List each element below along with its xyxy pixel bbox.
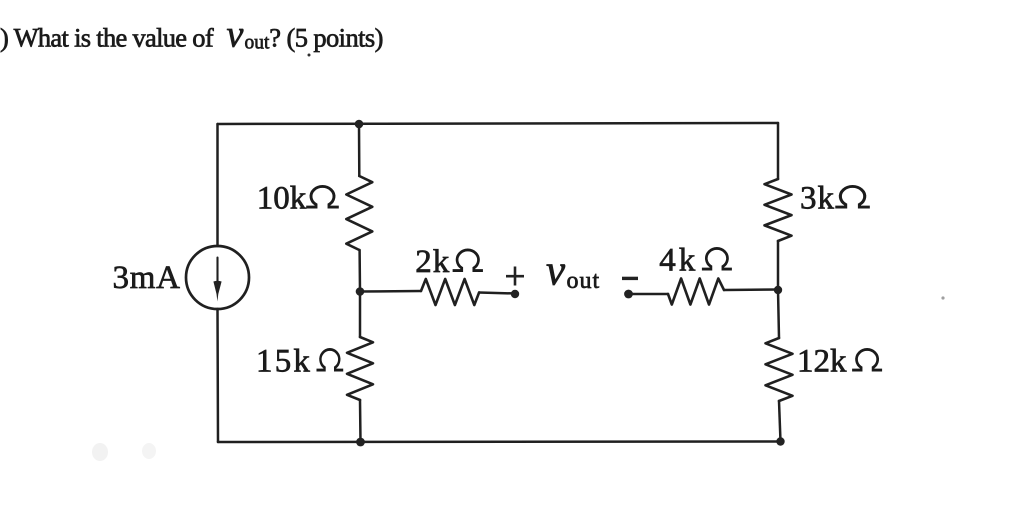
- wire right bottom: [779, 401, 781, 442]
- resistor R 15k zigzag: [347, 337, 373, 400]
- wire right upper: [777, 123, 780, 179]
- node dot right junction: [774, 286, 782, 294]
- node dot middle-left junction: [356, 287, 365, 296]
- wire to plus node: [479, 293, 515, 294]
- resistor R 2k zigzag: [421, 279, 479, 305]
- svg-text:15k: 15k: [256, 344, 312, 380]
- node dot bottom right: [776, 437, 784, 445]
- svg-text:3mA: 3mA: [113, 260, 181, 296]
- current source arrow: [216, 258, 218, 284]
- faint smudge bottom left 1: [92, 443, 108, 461]
- minus sign: [622, 277, 638, 280]
- wire middle branch bottom: [359, 400, 362, 442]
- svg-text:out: out: [567, 268, 601, 294]
- wire left lower: [216, 309, 219, 442]
- wire right lower: [778, 290, 779, 338]
- label 15k ohm: [256, 344, 343, 380]
- node dot top junction: [355, 120, 364, 129]
- svg-text:) What is the value of: ) What is the value of: [0, 23, 214, 53]
- wire center left segment: [360, 290, 421, 293]
- svg-text:v: v: [546, 247, 566, 294]
- label 2k ohm: [415, 244, 483, 280]
- resistor R 10k zigzag: [346, 176, 372, 250]
- label 12k ohm: [797, 344, 882, 380]
- svg-text:2k: 2k: [415, 244, 450, 280]
- resistor R 3k zigzag: [765, 179, 792, 241]
- wire left upper: [216, 124, 219, 246]
- svg-text:? (5 points): ? (5 points): [269, 23, 383, 53]
- svg-text:out: out: [245, 33, 271, 54]
- wire right mid: [777, 241, 780, 290]
- faint speck right of circuit: [941, 296, 944, 299]
- wire from 4k to right branch: [724, 288, 778, 291]
- resistor R 12k zigzag: [766, 338, 793, 401]
- svg-text:10k: 10k: [257, 181, 307, 217]
- wire middle branch mid: [358, 250, 361, 292]
- faint smudge bottom left 2: [142, 443, 156, 459]
- node dot bottom junction: [356, 438, 365, 447]
- wire top: [218, 123, 779, 124]
- node dot plus terminal: [511, 290, 519, 298]
- label vout: [546, 247, 600, 294]
- current source arrowhead: [213, 281, 221, 302]
- svg-text:12k: 12k: [797, 344, 847, 380]
- svg-text:v: v: [227, 14, 244, 56]
- wire from minus node: [629, 293, 669, 296]
- label 4k ohm: [659, 243, 732, 279]
- wire middle branch upper: [358, 124, 361, 176]
- node dot minus terminal: [624, 290, 633, 299]
- label 10k ohm: [257, 181, 339, 217]
- plus sign: [506, 267, 524, 286]
- stray ink dot under title: [308, 54, 311, 57]
- svg-text:4k: 4k: [659, 243, 698, 279]
- label 3k ohm: [800, 181, 870, 217]
- title text: [0, 14, 383, 56]
- resistor R 4k zigzag: [668, 279, 724, 305]
- current source I1 circle: [186, 246, 249, 309]
- wire bottom: [218, 440, 781, 443]
- wire middle branch lower: [359, 292, 362, 338]
- svg-text:3k: 3k: [800, 181, 835, 217]
